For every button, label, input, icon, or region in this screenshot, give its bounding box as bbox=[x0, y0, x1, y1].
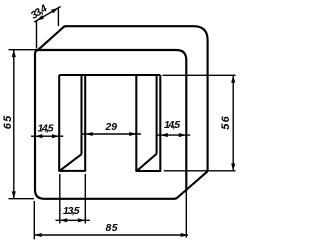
dim 65: extension bottom bbox=[9, 198, 35, 200]
svg-text:29: 29 bbox=[105, 122, 118, 133]
dim 33.4: extension right bbox=[57, 7, 59, 26]
dim 14.5 left: dimension line with overshoot bbox=[31, 135, 63, 137]
dim 29 arrow left bbox=[86, 132, 93, 136]
dim 65 arrow up bbox=[12, 50, 16, 57]
right window slot bbox=[136, 75, 160, 171]
dim 65: extension top bbox=[9, 49, 40, 51]
dim 13.5 arrow right bbox=[78, 218, 85, 222]
dim 33.4 arrow lower-left bbox=[37, 15, 44, 20]
dim 56: extension top bbox=[163, 74, 236, 76]
dim 33.4: dimension line bbox=[34, 7, 60, 23]
dim 13.5 arrow left bbox=[60, 218, 67, 222]
wire: slot top line across center limb bbox=[59, 74, 160, 76]
dim 65: dimension line bbox=[13, 50, 15, 199]
dim 85: extension left bbox=[33, 201, 35, 239]
dim 29: dimension line with overshoot bbox=[81, 133, 141, 135]
svg-text:65: 65 bbox=[2, 115, 14, 129]
left slot bottom diagonal bbox=[60, 154, 81, 170]
left slot inner wall line bbox=[80, 75, 82, 154]
dim 85 arrow right bbox=[181, 233, 188, 237]
right slot bottom diagonal bbox=[137, 154, 156, 171]
right slot inner wall line bbox=[156, 75, 158, 154]
dim 85 arrow left bbox=[34, 233, 41, 237]
dim 13.5: dimension line with overshoot bbox=[56, 219, 90, 221]
dim 56: extension bottom bbox=[164, 170, 236, 172]
svg-text:85: 85 bbox=[106, 223, 118, 234]
dim 56 arrow up bbox=[231, 75, 235, 82]
dim 33.4 arrow upper-right bbox=[51, 8, 58, 13]
dim 13.5: extension left bbox=[59, 174, 61, 224]
dim 65 arrow down bbox=[12, 191, 16, 198]
dim 14.5L arrow right bbox=[52, 134, 59, 138]
second contour (inner tape layer, top and right) bbox=[39, 50, 187, 191]
outer contour bbox=[35, 26, 208, 199]
dim 33.4: extension left bbox=[36, 20, 38, 48]
dim 14.5L arrow left bbox=[35, 134, 42, 138]
dim 85: dimension line bbox=[34, 234, 188, 236]
dim 29 arrow right bbox=[129, 132, 136, 136]
svg-text:14,5: 14,5 bbox=[164, 120, 180, 131]
dim 14.5R arrow left bbox=[161, 133, 168, 137]
dim 13.5: extension right bbox=[84, 174, 86, 224]
dim 14.5R arrow right bbox=[179, 133, 186, 137]
dim 56 arrow down bbox=[231, 164, 235, 171]
svg-text:14,5: 14,5 bbox=[38, 124, 54, 135]
left window slot bbox=[59, 75, 85, 171]
dim 14.5 right: dimension line with overshoot bbox=[157, 134, 191, 136]
svg-text:13,5: 13,5 bbox=[63, 206, 80, 217]
svg-text:56: 56 bbox=[220, 115, 232, 129]
dim 56: dimension line bbox=[232, 76, 234, 171]
wire: inner right edge extension down to 85 dim bbox=[185, 191, 187, 238]
